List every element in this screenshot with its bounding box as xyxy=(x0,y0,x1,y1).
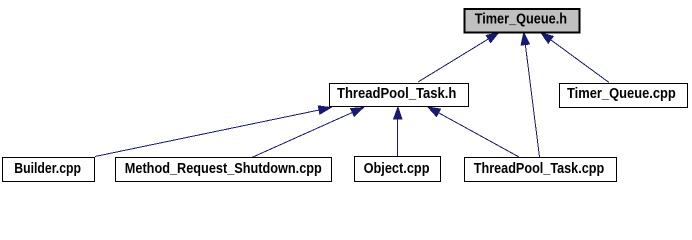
svg-text:Timer_Queue.h: Timer_Queue.h xyxy=(475,12,567,28)
svg-text:Builder.cpp: Builder.cpp xyxy=(14,161,81,177)
svg-text:Timer_Queue.cpp: Timer_Queue.cpp xyxy=(567,86,676,102)
svg-text:ThreadPool_Task.cpp: ThreadPool_Task.cpp xyxy=(474,161,605,177)
svg-text:Method_Request_Shutdown.cpp: Method_Request_Shutdown.cpp xyxy=(125,161,322,177)
svg-text:ThreadPool_Task.h: ThreadPool_Task.h xyxy=(337,86,456,102)
svg-text:Object.cpp: Object.cpp xyxy=(364,161,430,177)
